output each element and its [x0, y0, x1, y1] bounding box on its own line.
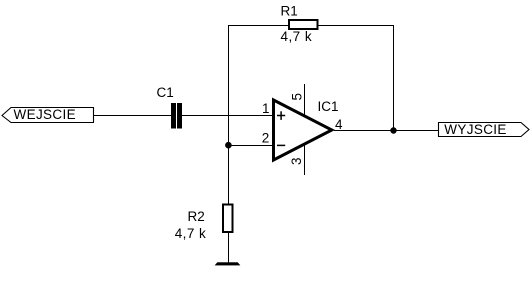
svg-text:4: 4 [335, 117, 343, 132]
wire input-to-C1 [94, 115, 172, 117]
svg-text:WYJSCIE: WYJSCIE [444, 122, 506, 137]
node junction dot A (inverting input node) [225, 142, 232, 149]
pin 3 [304, 143, 306, 175]
node WYJSCIE (output port flag) [439, 122, 530, 137]
resistor R2 [175, 205, 233, 242]
op-amp minus symbol [277, 144, 285, 146]
wire output [334, 130, 439, 132]
wire node-A-to-pin2 [229, 145, 274, 147]
resistor R1 [281, 4, 318, 45]
svg-text:R1: R1 [281, 4, 298, 19]
op-amp plus symbol [277, 111, 285, 120]
wire C1-to-pin1 [182, 115, 274, 117]
svg-text:R2: R2 [188, 209, 205, 224]
op-amp IC1 [274, 99, 339, 160]
svg-text:C1: C1 [157, 85, 174, 100]
svg-text:3: 3 [289, 157, 304, 165]
capacitor C1 [157, 85, 183, 129]
ground [215, 263, 239, 266]
svg-text:WEJSCIE: WEJSCIE [14, 107, 76, 122]
svg-text:5: 5 [290, 93, 305, 101]
svg-text:4,7 k: 4,7 k [281, 29, 313, 44]
node WEJSCIE (input port flag) [2, 107, 94, 122]
svg-text:2: 2 [262, 131, 270, 146]
wire R2-to-ground [228, 232, 230, 263]
svg-text:IC1: IC1 [318, 99, 339, 114]
wire feedback loop (left vertical, top, right vertical) [229, 26, 394, 204]
node junction dot B (output node) [390, 127, 396, 133]
svg-text:4,7 k: 4,7 k [175, 226, 207, 241]
svg-text:1: 1 [262, 101, 270, 116]
pin 5 [304, 84, 306, 117]
